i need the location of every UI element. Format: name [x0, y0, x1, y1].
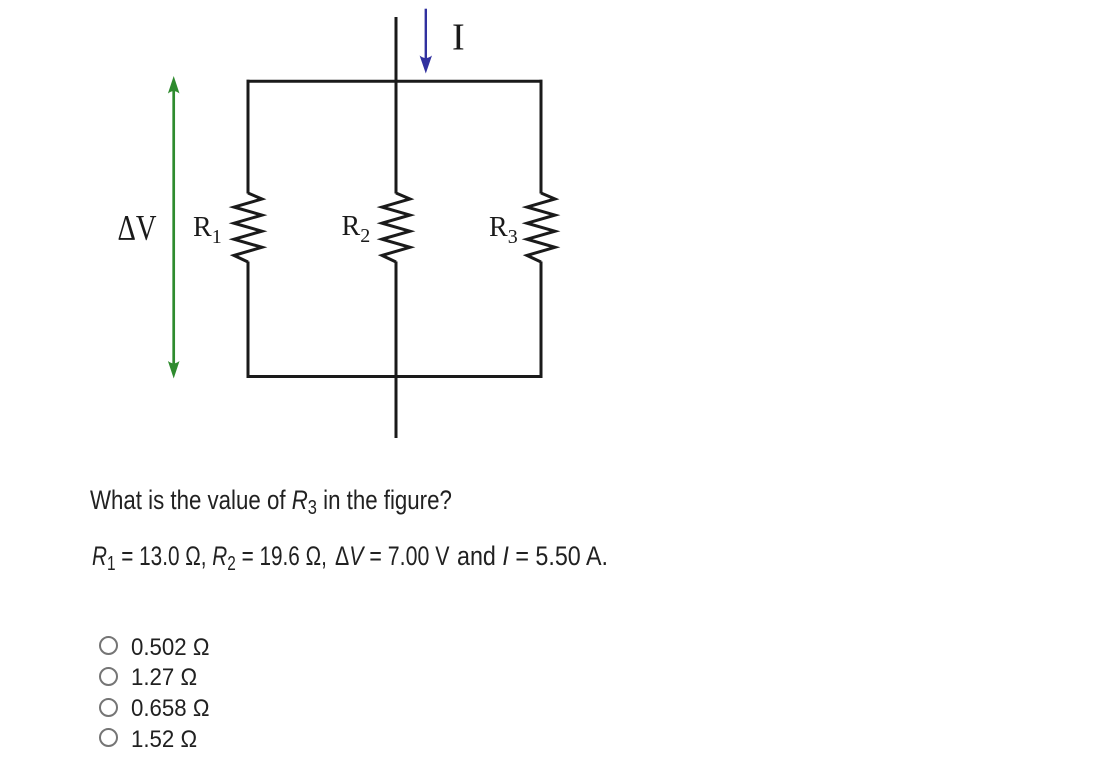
option radio 1 — [99, 636, 118, 655]
resistor R2 zigzag — [382, 193, 410, 262]
option text 2 — [131, 666, 197, 690]
voltage arrow down head — [168, 361, 180, 379]
wire left branch top — [247, 80, 250, 194]
question line 1 — [90, 487, 452, 514]
svg-text:R1: R1 — [193, 212, 222, 248]
option radio 4 — [99, 728, 118, 747]
resistor R1 zigzag — [234, 193, 262, 262]
svg-text:R2: R2 — [342, 211, 371, 247]
wire middle branch top — [395, 17, 398, 194]
svg-text:R3: R3 — [489, 212, 518, 248]
question line 2 part A — [92, 543, 327, 570]
wire right branch top — [540, 80, 543, 194]
wire bottom rail — [247, 375, 543, 378]
option radio 3 — [99, 698, 118, 717]
wire left branch bottom — [247, 262, 250, 379]
svg-text:ΔV: ΔV — [118, 208, 157, 248]
option radio 2 — [99, 667, 118, 686]
question line 2 part B — [335, 543, 449, 570]
option text 3 — [131, 697, 209, 721]
voltage arrow up head — [168, 76, 180, 94]
wire top rail — [247, 80, 543, 83]
resistor R3 zigzag — [527, 193, 555, 262]
voltage arrow dV shaft — [172, 90, 175, 365]
current arrow I head — [420, 56, 432, 74]
current arrow I shaft — [425, 9, 427, 60]
option text 4 — [131, 728, 197, 752]
svg-text:I: I — [452, 17, 465, 59]
wire right branch bottom — [540, 262, 543, 379]
question line 2 part C — [457, 543, 608, 570]
wire middle branch bottom — [395, 262, 398, 439]
option text 1 — [131, 636, 209, 660]
circuit figure — [0, 0, 620, 470]
